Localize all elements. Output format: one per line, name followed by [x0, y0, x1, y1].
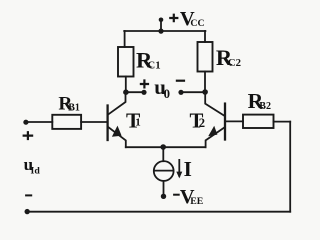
plus sign at u0	[140, 79, 149, 88]
transistor T2 base bar	[224, 104, 226, 140]
wire bottom rail	[27, 211, 290, 213]
wire u0 minus stub	[181, 91, 205, 93]
current direction arrow shaft	[178, 160, 180, 176]
transistor T2 emitter arrow	[208, 126, 217, 137]
resistor RC2	[198, 42, 213, 72]
svg-text:B1: B1	[68, 102, 80, 113]
svg-text:B2: B2	[259, 101, 271, 112]
transistor T1 collector	[108, 92, 125, 114]
svg-text:0: 0	[164, 87, 170, 101]
wire RB2 right lead to corner	[274, 121, 291, 123]
transistor T2 emitter	[206, 127, 225, 147]
node emitter rail junction dot	[160, 144, 166, 150]
wire RB1 to T1 base	[81, 121, 107, 123]
node VCC junction dot	[158, 29, 163, 34]
current direction arrowhead	[176, 172, 182, 179]
plus sign at input	[23, 131, 34, 140]
plus sign at VCC	[169, 14, 178, 23]
transistor T1 base bar	[106, 106, 108, 141]
minus sign at input	[25, 194, 32, 196]
wire right vertical drop	[289, 122, 291, 212]
wire T2 base to RB2	[226, 120, 243, 122]
wire current source to -VEE terminal	[163, 181, 165, 196]
resistor RB1	[52, 115, 81, 129]
minus sign at u0	[176, 80, 185, 82]
node bottom-left terminal dot	[25, 209, 30, 214]
svg-text:C2: C2	[228, 57, 241, 69]
node VCC terminal dot	[159, 18, 164, 23]
node input terminal dot	[23, 120, 28, 125]
wire +VCC stub	[160, 20, 162, 32]
current source I circle	[154, 161, 174, 181]
transistor T1 emitter arrow	[112, 126, 122, 137]
transistor T2 collector	[205, 92, 224, 115]
svg-text:C1: C1	[147, 59, 160, 71]
node RC1 collector junction dot	[123, 89, 129, 95]
minus sign at VEE	[173, 194, 180, 196]
wire top-right drop to RC2	[204, 31, 206, 42]
resistor RC1	[118, 47, 134, 77]
svg-text:EE: EE	[190, 196, 204, 207]
node RC2 collector junction dot	[202, 89, 208, 95]
wire top-left drop to RC1	[124, 31, 126, 47]
wire top rail VCC	[124, 30, 205, 32]
wire input base RB1 left lead	[26, 121, 52, 123]
svg-text:1: 1	[135, 116, 141, 128]
wire RC1 bottom lead	[125, 77, 127, 93]
svg-text:CC: CC	[190, 18, 204, 29]
node -VEE terminal dot	[161, 194, 166, 199]
wire emitter rail	[126, 146, 206, 148]
svg-text:Id: Id	[31, 165, 41, 176]
wire u0 plus stub	[126, 91, 144, 93]
transistor T1 emitter	[108, 127, 125, 147]
node u0 plus terminal dot	[141, 90, 146, 95]
svg-text:I: I	[184, 157, 192, 181]
wire emitter rail to current source	[162, 147, 164, 161]
svg-text:2: 2	[199, 116, 205, 130]
node u0 minus terminal dot	[178, 90, 183, 95]
wire RC2 bottom lead	[204, 72, 206, 93]
current source horizontal bar	[154, 170, 173, 172]
resistor RB2	[243, 115, 274, 128]
